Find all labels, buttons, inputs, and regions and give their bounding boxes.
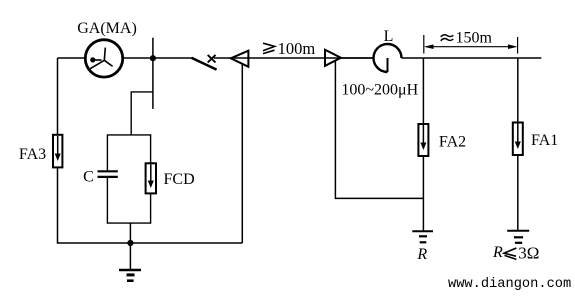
svg-text:www.diangon.com: www.diangon.com xyxy=(448,277,571,292)
svg-text:L: L xyxy=(384,28,394,45)
dimension: double arrow line xyxy=(424,44,518,49)
label ~150m xyxy=(441,29,493,46)
svg-text:FA2: FA2 xyxy=(439,134,466,151)
svg-text:150m: 150m xyxy=(456,29,493,46)
ground (earth) at bottom rail xyxy=(119,243,141,281)
wire: FA1 branch from main line xyxy=(517,58,519,123)
svg-text:GA(MA): GA(MA) xyxy=(77,20,137,37)
svg-text:100m: 100m xyxy=(278,39,316,58)
capacitor C plates xyxy=(98,171,118,177)
dimension: tick left xyxy=(423,35,425,54)
wire: FA2 to ground xyxy=(422,156,424,231)
wire: main line from left rail to meter xyxy=(58,57,86,59)
svg-text:C: C xyxy=(83,169,94,186)
wire: inductor to right end xyxy=(402,57,542,59)
junction node on bottom rail (dot) xyxy=(127,240,133,246)
inductor L (single loop) xyxy=(374,44,402,72)
C/FCD box outline (capacitor gap in left side) xyxy=(107,135,150,223)
wire: FA1 to ground xyxy=(517,155,519,231)
arrester FA1 xyxy=(513,123,523,156)
wire: drop from right triangle down and over to FA2 branch xyxy=(335,61,423,199)
wire: box bottom to bottom rail xyxy=(129,223,131,243)
label R<=3ohm xyxy=(492,244,539,263)
svg-text:3Ω: 3Ω xyxy=(518,244,539,263)
svg-text:R: R xyxy=(492,244,503,261)
arrester FA2 xyxy=(418,124,428,156)
svg-text:R: R xyxy=(416,246,427,263)
wire: drop from left triangle to bottom rail xyxy=(241,64,243,243)
wire: branch from stub down to C/FCD box xyxy=(131,92,153,135)
svg-text:FA3: FA3 xyxy=(19,146,46,163)
wire: left vertical rail and bottom rail xyxy=(58,58,243,243)
svg-text:FA1: FA1 xyxy=(531,132,558,149)
wire: switch to left triangle xyxy=(214,57,231,59)
arrester FA3 xyxy=(53,135,62,168)
ground (earth) under FA2 xyxy=(412,231,433,242)
protector gap P1 (left-pointing triangle) xyxy=(231,51,249,67)
junction node (dot) xyxy=(150,55,156,61)
svg-text:FCD: FCD xyxy=(164,171,195,188)
dimension: tick right xyxy=(517,37,519,54)
switch blade (open switch) xyxy=(191,58,216,70)
protector gap P2 (right-pointing triangle) xyxy=(325,50,341,66)
arrester FCD xyxy=(146,163,156,193)
wire: meter to switch xyxy=(123,57,192,59)
wire: through triangles xyxy=(231,57,374,59)
ground (earth) under FA1 xyxy=(507,231,529,243)
wire: vertical stub through junction xyxy=(152,38,154,109)
wire: right triangle to inductor xyxy=(341,57,374,59)
switch cross mark xyxy=(208,55,216,63)
wire: FA2 branch from main line xyxy=(422,58,424,124)
meter GA(MA) xyxy=(85,40,122,77)
svg-text:100~200μH: 100~200μH xyxy=(341,82,418,99)
label >=100m xyxy=(263,39,315,58)
